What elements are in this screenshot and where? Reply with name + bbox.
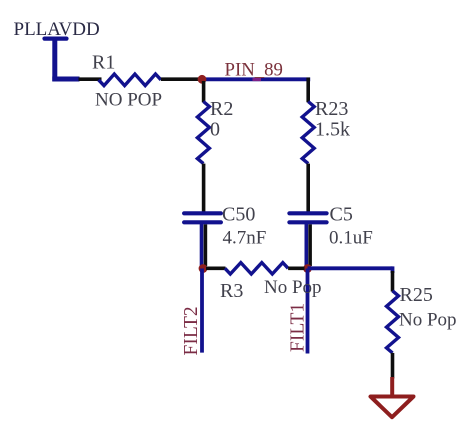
svg-text:R25: R25 bbox=[400, 284, 433, 306]
svg-text:1.5k: 1.5k bbox=[315, 119, 350, 141]
svg-text:R23: R23 bbox=[315, 98, 348, 120]
svg-text:R3: R3 bbox=[220, 280, 243, 302]
svg-text:0: 0 bbox=[210, 119, 220, 141]
svg-text:No Pop: No Pop bbox=[264, 277, 322, 298]
svg-text:C50: C50 bbox=[222, 204, 255, 226]
svg-text:C5: C5 bbox=[330, 204, 353, 226]
svg-text:R1: R1 bbox=[92, 52, 115, 74]
svg-text:FILT2: FILT2 bbox=[181, 306, 202, 355]
svg-text:FILT1: FILT1 bbox=[288, 303, 309, 352]
svg-text:PIN_89: PIN_89 bbox=[225, 60, 283, 81]
svg-text:PLLAVDD: PLLAVDD bbox=[14, 19, 100, 40]
svg-text:R2: R2 bbox=[210, 98, 233, 120]
svg-text:4.7nF: 4.7nF bbox=[223, 227, 267, 248]
svg-text:0.1uF: 0.1uF bbox=[329, 227, 373, 248]
svg-text:No Pop: No Pop bbox=[399, 309, 457, 330]
svg-text:NO POP: NO POP bbox=[95, 90, 162, 111]
